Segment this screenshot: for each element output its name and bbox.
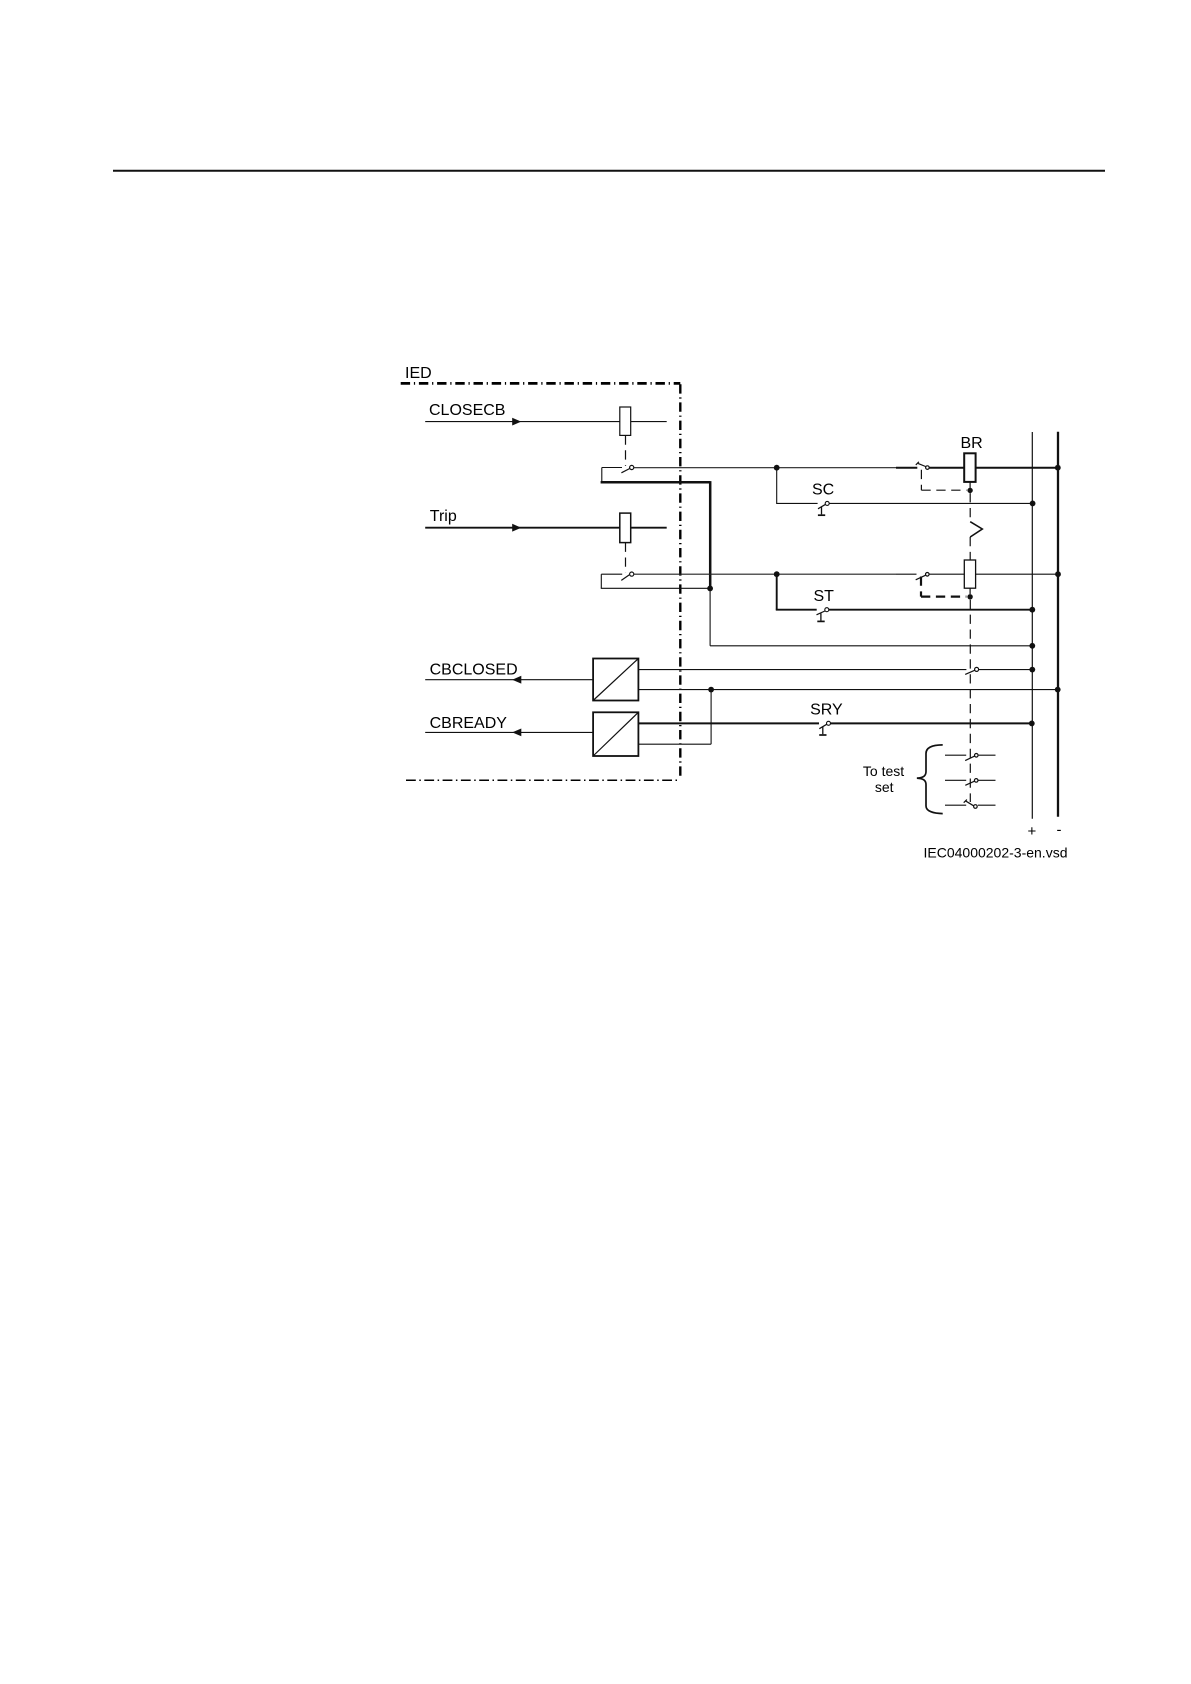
node BR linkage bbox=[967, 488, 972, 493]
test switch C circle bbox=[974, 805, 978, 809]
switch SRY blade bbox=[819, 724, 827, 729]
breaker aux contact row1 tick bbox=[916, 462, 919, 465]
wire CBCLOSED to plus bus bbox=[979, 669, 1032, 671]
test switch B blade bbox=[965, 781, 975, 785]
test switch C wire left bbox=[945, 804, 966, 806]
wire BR coil to minus bus bbox=[976, 467, 1058, 469]
linkage aux1 dashed bbox=[921, 470, 966, 490]
switch ST blade bbox=[817, 611, 825, 615]
wire ST drop bbox=[776, 574, 778, 610]
wire contact1 left bbox=[602, 467, 622, 469]
wire contact1 to close circuit bbox=[634, 467, 896, 469]
wire contact2 to trip circuit bbox=[634, 573, 897, 575]
linkage chevron to trip coil dashed bbox=[969, 537, 971, 560]
linkage Trip coil to contact dashed bbox=[625, 543, 627, 573]
test switch C wire right bbox=[978, 804, 996, 806]
wire SC left bbox=[776, 502, 817, 504]
wire SC right to plus bus bbox=[829, 502, 1032, 504]
wire trip thick bbox=[896, 573, 917, 575]
wire trip coil bottom stub bbox=[969, 588, 971, 594]
arrowhead CBCLOSED (left) bbox=[512, 676, 521, 684]
wire CBREADY output bbox=[425, 731, 593, 733]
wire BR coil bottom stub bbox=[969, 482, 971, 488]
wire ST right to plus bus bbox=[829, 609, 1033, 611]
wire CLOSECB input bbox=[425, 421, 620, 423]
wire thick vertical x710 bbox=[709, 481, 712, 588]
wire trip coil to minus bus bbox=[976, 573, 1058, 575]
node ST at plus bus bbox=[1029, 607, 1035, 613]
wire loop down bbox=[710, 690, 712, 745]
coil Trip output relay bbox=[620, 513, 631, 543]
minus bus bbox=[1057, 432, 1059, 817]
coil BR bbox=[964, 453, 975, 482]
IED boundary top (dash-dot) bbox=[401, 382, 681, 385]
node trip coil linkage bbox=[967, 594, 972, 599]
wire SRY left thick bbox=[638, 722, 819, 724]
binary input box CBREADY bbox=[593, 712, 638, 756]
arrowhead CBREADY (left) bbox=[512, 729, 521, 737]
wire contact2 left drop bbox=[600, 574, 602, 588]
wire Trip coil right bbox=[631, 527, 667, 529]
node CBCLOSED at plus bus bbox=[1029, 667, 1035, 673]
node trip junction bbox=[774, 571, 780, 577]
wire feed to plus bus bbox=[710, 645, 1031, 647]
svg-text:SC: SC bbox=[812, 482, 834, 499]
wire CLOSECB coil right bbox=[631, 421, 667, 423]
breaker aux contact CBCLOSED blade bbox=[965, 670, 975, 674]
svg-text:To test: To test bbox=[863, 763, 904, 779]
plus bus bbox=[1031, 432, 1033, 819]
test switch A circle bbox=[975, 754, 979, 758]
switch SC blade bbox=[818, 504, 826, 509]
test switch C tick bbox=[964, 800, 967, 803]
linkage dashed to test switches bbox=[969, 600, 971, 802]
switch SRY stem bbox=[822, 727, 824, 734]
binary input box CBCLOSED bbox=[593, 659, 638, 701]
test switch C blade bbox=[965, 801, 973, 806]
coil CLOSECB output relay bbox=[620, 407, 631, 435]
switch SRY circle bbox=[827, 721, 831, 725]
breaker aux contact row1 blade bbox=[918, 463, 926, 466]
test switch B wire right bbox=[978, 779, 996, 781]
wire loop to CBREADY box bbox=[638, 743, 711, 745]
IED boundary right (dash-dot) bbox=[679, 384, 681, 776]
wire Trip input bbox=[425, 527, 620, 529]
linkage aux2 dashed bbox=[921, 577, 966, 597]
contact CLOSECB pivot circle bbox=[630, 465, 634, 469]
svg-text:+: + bbox=[1028, 823, 1037, 840]
node x710 row2 bbox=[707, 586, 713, 592]
top rule bbox=[113, 170, 1105, 172]
arrowhead CLOSECB bbox=[512, 418, 521, 426]
wire bottom row2 bbox=[601, 587, 710, 589]
switch ST circle bbox=[825, 608, 829, 612]
svg-text:IED: IED bbox=[405, 365, 432, 382]
switch SC stem bbox=[821, 507, 823, 515]
svg-text:IEC04000202-3-en.vsd: IEC04000202-3-en.vsd bbox=[924, 844, 1068, 860]
test switch A wire left bbox=[945, 754, 966, 756]
contact CLOSECB blade bbox=[621, 469, 629, 473]
svg-text:-: - bbox=[1057, 822, 1062, 839]
node CBCLOSED at minus bus bbox=[1055, 687, 1061, 693]
breaker aux contact CBCLOSED circle bbox=[975, 667, 979, 671]
switch ST stem bbox=[820, 613, 822, 620]
svg-text:set: set bbox=[875, 779, 894, 795]
node close junction bbox=[774, 465, 780, 471]
wire CBCLOSED output bbox=[425, 679, 593, 681]
test switch A blade bbox=[965, 756, 975, 761]
test switch B circle bbox=[974, 779, 978, 783]
node close at minus bus bbox=[1055, 465, 1061, 471]
node SC at plus bus bbox=[1030, 501, 1036, 507]
wire CBCLOSED sense top bbox=[638, 669, 966, 671]
wire aux2 to trip coil bbox=[929, 573, 964, 575]
wire SRY right to plus bus bbox=[831, 722, 1032, 724]
svg-text:BR: BR bbox=[961, 435, 983, 452]
wire close thick bbox=[896, 467, 917, 469]
wire CBCLOSED sense bottom to minus bus bbox=[638, 689, 1057, 691]
wire x710 down bbox=[709, 588, 711, 645]
wire thick bottom row1 bbox=[601, 481, 711, 484]
wire aux1 to BR coil bbox=[929, 467, 964, 469]
svg-text:CBCLOSED: CBCLOSED bbox=[430, 661, 518, 678]
node trip at minus bus bbox=[1055, 571, 1061, 577]
test switch A wire right bbox=[979, 754, 996, 756]
svg-text:CBREADY: CBREADY bbox=[430, 715, 508, 732]
switch SC circle bbox=[825, 501, 829, 505]
breaker aux contact row2 blade bbox=[916, 575, 926, 580]
binary input box CBREADY diagonal bbox=[593, 712, 638, 756]
node CBCLOSED loop bbox=[708, 687, 714, 693]
binary input box CBCLOSED diagonal bbox=[593, 659, 638, 701]
node feed at plus bus bbox=[1029, 643, 1035, 649]
contact Trip blade bbox=[621, 575, 629, 581]
arrowhead Trip bbox=[512, 524, 521, 532]
wire SC drop bbox=[776, 468, 778, 504]
brace test set bbox=[917, 745, 943, 814]
coil trip (breaker) bbox=[964, 560, 975, 588]
linkage chevron bbox=[970, 522, 982, 537]
svg-text:ST: ST bbox=[814, 588, 835, 605]
svg-text:SRY: SRY bbox=[810, 701, 843, 718]
test switch B wire left bbox=[945, 779, 966, 781]
wire ST left bbox=[776, 609, 817, 611]
linkage BR dashed down bbox=[969, 493, 971, 522]
contact Trip pivot circle bbox=[630, 572, 634, 576]
wire contact2 left bbox=[601, 573, 622, 575]
wire contact1 left drop bbox=[601, 468, 603, 483]
IED boundary bottom (dash-dot) bbox=[406, 779, 680, 781]
node SRY at plus bus bbox=[1029, 721, 1035, 727]
breaker aux contact row2 circle bbox=[926, 573, 930, 577]
svg-text:Trip: Trip bbox=[430, 508, 457, 525]
breaker aux contact row1 circle bbox=[926, 466, 930, 470]
svg-text:CLOSECB: CLOSECB bbox=[429, 402, 505, 419]
linkage CLOSECB coil to contact (dashed) bbox=[625, 435, 627, 466]
